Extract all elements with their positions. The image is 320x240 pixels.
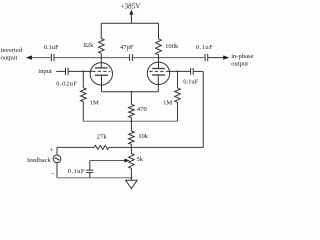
resistor 100k [156,39,162,55]
node: feedback junction [130,146,132,148]
resistor 470 (cathode bias) [129,104,135,117]
wire: input stub [56,70,65,72]
ground symbol [130,178,132,180]
svg-text:5k: 5k [137,156,144,163]
triode V1 cathode lead [101,75,103,92]
wire: 27k to tail node and right vertical [109,146,203,148]
svg-text:+385V: +385V [120,3,141,11]
wire: wiper to 0.1uF [89,161,91,171]
svg-text:470: 470 [137,106,148,113]
resistor 1M (right grid leak) [175,88,181,103]
svg-text:output: output [231,60,248,67]
svg-text:0.1uF: 0.1uF [196,44,213,51]
arrow: in-phase output [223,55,229,59]
wire: feedback line to 27k [57,146,94,148]
triode V2 cathode lead [157,75,159,92]
wire: right plate node to 0.1uF [159,57,205,59]
wire: grid node down to 1M [82,71,84,87]
wire: rail to 100k [158,23,160,39]
wire: node to 10k [130,121,132,131]
triode V2 anode lead [158,58,160,69]
node: left grid junction [82,70,84,72]
wire: cathode bus [102,91,159,93]
svg-text:feedback: feedback [27,157,51,164]
triode V2 cathode [152,74,165,76]
svg-text:input: input [38,68,52,75]
capacitor 0.02uF (input coupling) [65,68,67,75]
svg-text:0.1uF: 0.1uF [183,78,199,85]
arrow: 5k wiper [124,159,129,163]
capacitor 0.1uF (wiper bypass) [86,169,93,171]
triode V1 cathode [95,74,108,76]
triode V2 anode [152,68,165,70]
svg-text:1M: 1M [163,100,172,107]
wire: arrow to 0.1uF cap [32,57,52,59]
wire: 5k to ground bus [130,168,132,178]
node: right grid junction [177,70,179,72]
wire: rail to 82k [100,23,102,38]
capacitor 0.1uF (grid bypass) [190,68,192,75]
triode V2 grid (dashed) [149,70,167,72]
resistor 5k (hum balance pot) [129,154,135,169]
wire: 1M to bias node line [82,102,84,121]
wire: right grid node down to 1M [177,71,179,88]
wire: cap to arrow [208,57,224,59]
wire: cap to right vertical [194,70,204,72]
wire: 470 to bias node [130,118,132,122]
node: ground junction [130,177,132,179]
wire: 10k to feedback line [130,144,132,147]
wire: ground bus [57,177,131,179]
triode V1 anode lead [100,58,102,68]
power supply arrow up [130,13,132,23]
svg-text:0.1uF: 0.1uF [68,168,85,175]
arrow: inverted output [26,55,32,59]
wire: cap to ground bus [89,173,91,178]
svg-text:−: − [51,170,55,177]
svg-text:82k: 82k [84,42,95,49]
triode V1 (left) envelope [90,63,112,85]
svg-text:100k: 100k [165,43,179,50]
wire: 1M to bias node line [177,102,179,121]
svg-text:+: + [50,147,54,154]
node: right plate junction [158,57,160,59]
svg-text:47pF: 47pF [120,44,134,51]
svg-text:10k: 10k [138,133,149,140]
svg-text:0.02uF: 0.02uF [56,80,77,87]
resistor 1M (left grid leak) [81,88,87,102]
wire: cap to left plate node [54,57,101,59]
svg-text:inverted: inverted [1,47,23,54]
wire: bus to 470 [130,92,132,105]
wire: wiper line [90,160,126,162]
svg-text:27k: 27k [97,134,108,141]
wire: bias node line [83,120,177,122]
triode V2 (right) envelope [147,62,169,84]
wire: left plate to 47pF [101,57,129,59]
capacitor 47pF [129,54,131,61]
triode V1 anode [95,67,108,69]
svg-text:0.1uF: 0.1uF [44,44,60,51]
wire: 82k to left plate node [100,54,102,58]
node: bias node / tail junction [130,120,132,122]
feedback source (AC) [53,155,61,163]
wire: top HT rail [101,22,158,24]
svg-text:output: output [1,54,18,61]
svg-text:1M: 1M [90,99,99,106]
wire: input cap to left grid node [69,70,93,72]
node: left plate junction [100,57,102,59]
capacitor 0.1uF (inverted output coupling) [50,54,52,61]
wire: V2 grid to 0.1uF [168,70,191,72]
resistor 82k [99,39,105,54]
capacitor 0.1uF (in-phase output coupling) [204,54,206,61]
wire: feedback node to 5k [130,147,132,153]
wire: 47pF to right plate [132,57,158,59]
svg-text:in-phase: in-phase [231,53,253,60]
resistor 27k (feedback) [94,145,109,149]
node: cathode/tail junction [130,91,132,93]
wire: source to ground bus [56,163,58,178]
wire: source to feedback line [56,147,58,155]
wire: 100k to right plate node [158,55,160,58]
triode V1 grid (dashed) [92,70,110,72]
wire: right vertical down to feedback line [202,71,204,147]
resistor 10k (tail) [129,131,135,144]
